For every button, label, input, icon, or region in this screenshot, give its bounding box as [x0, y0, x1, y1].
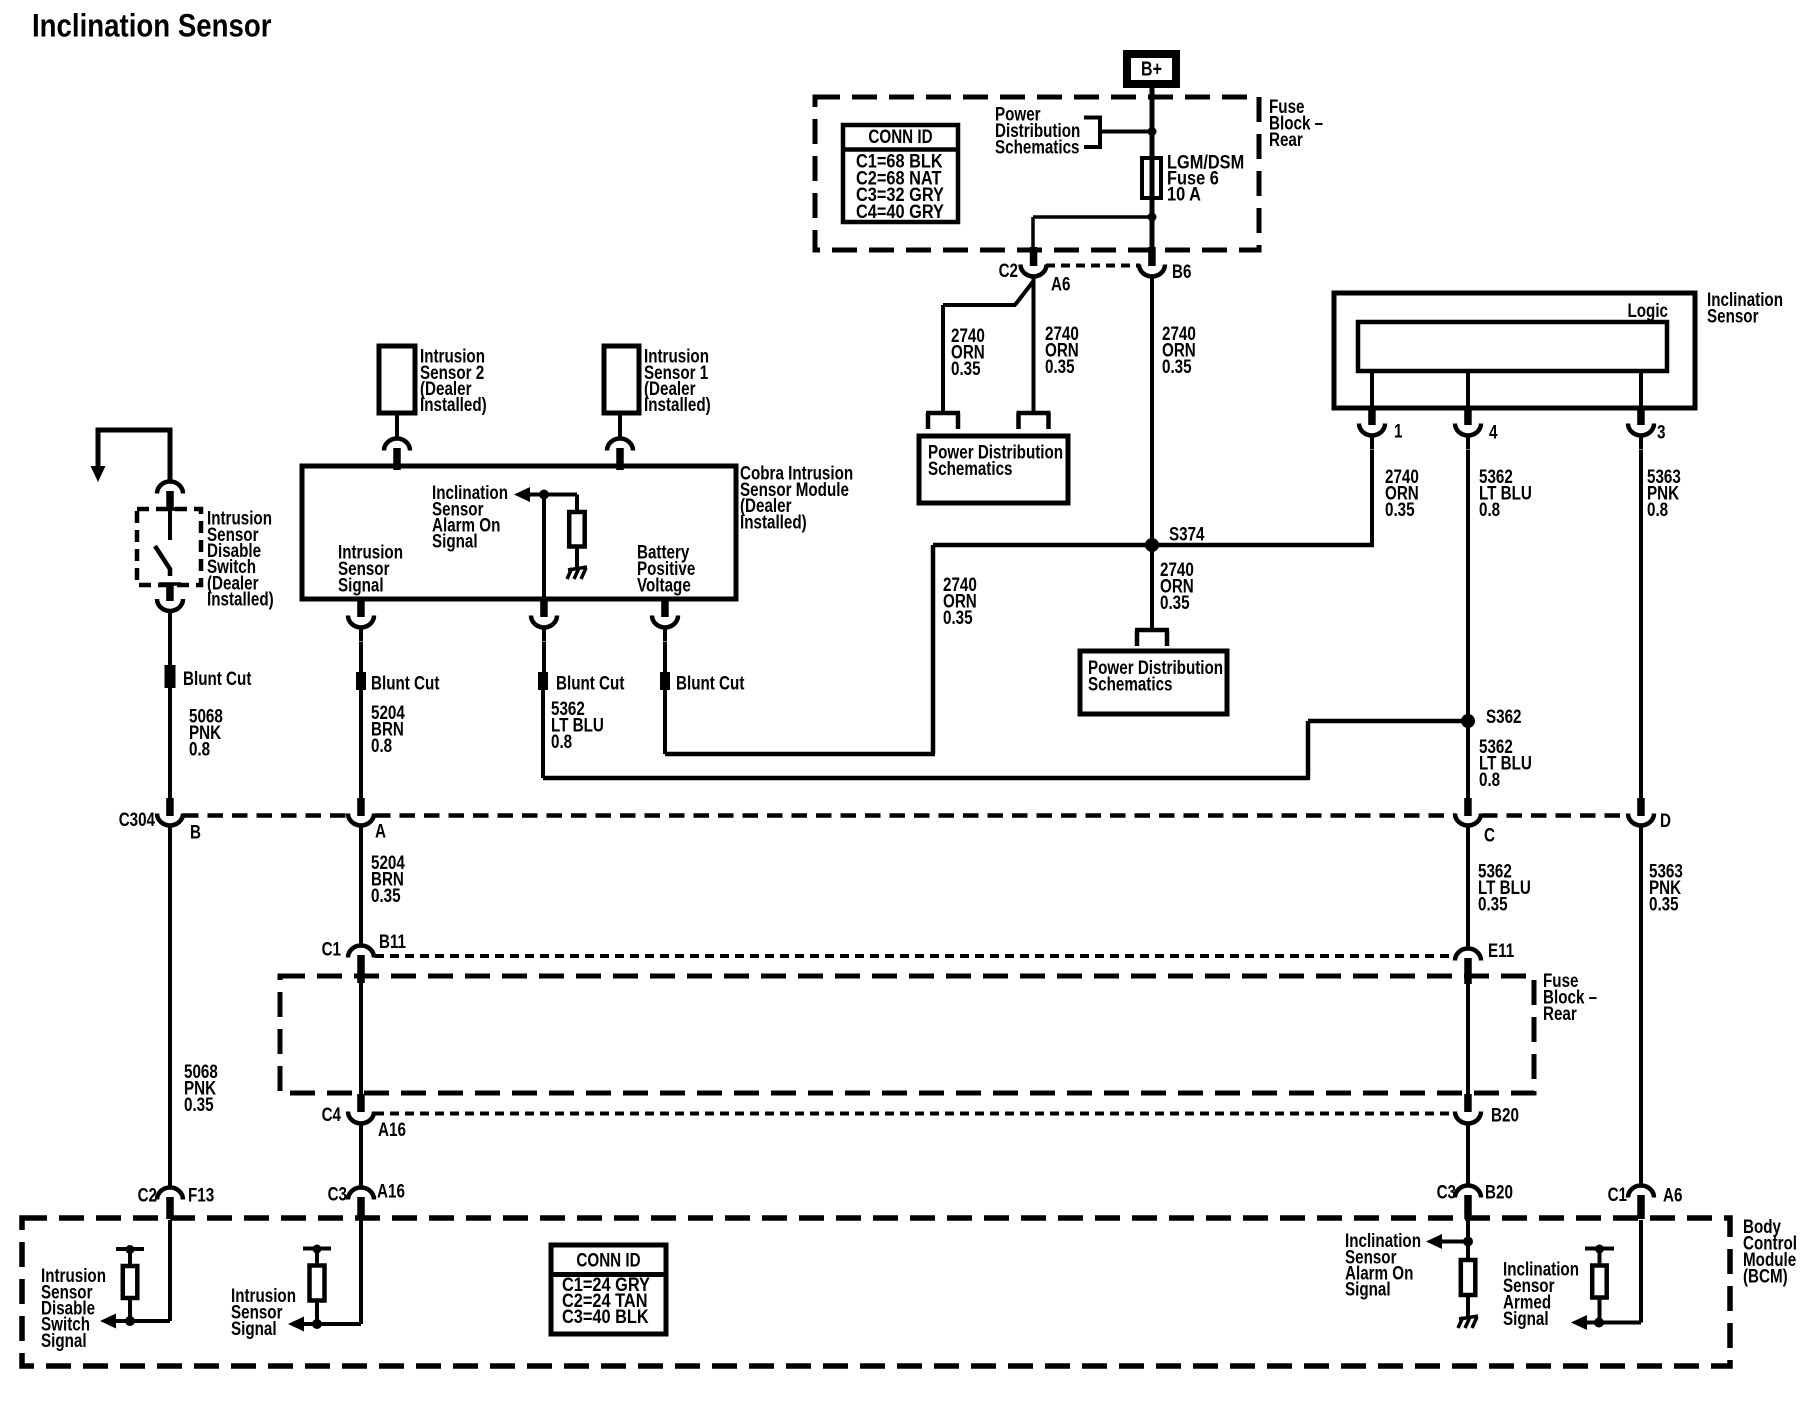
arrow intrusion sensor signal	[288, 1317, 304, 1332]
svg-text:Signal: Signal	[231, 1319, 277, 1340]
pin 1	[1368, 408, 1376, 425]
connector module alarm	[531, 616, 557, 628]
svg-text:0.35: 0.35	[1649, 894, 1679, 915]
svg-text:0.35: 0.35	[184, 1095, 214, 1116]
svg-text:0.35: 0.35	[943, 608, 973, 629]
blunt cut 2	[356, 672, 366, 690]
wire resistor to ground (BCM)	[1466, 1295, 1470, 1316]
ground (BCM)	[1459, 1316, 1478, 1319]
connector pin 4	[1455, 424, 1481, 436]
connector sensor 1	[607, 439, 633, 451]
wire S374 to battery blunt cut	[665, 752, 935, 757]
wire sensor 2 to module	[395, 413, 399, 437]
wire module battery to blunt cut	[663, 642, 667, 672]
svg-text:A16: A16	[377, 1182, 405, 1203]
svg-text:Installed): Installed)	[420, 395, 487, 416]
connector module battery	[652, 616, 678, 628]
svg-text:Inclination Sensor: Inclination Sensor	[32, 8, 272, 44]
wire 5204 BRN 0.35 down	[359, 839, 363, 945]
svg-text:Signal: Signal	[1503, 1309, 1549, 1330]
arrow inclination armed	[1571, 1315, 1587, 1330]
wire logic to pin 3	[1639, 371, 1643, 408]
svg-text:Rear: Rear	[1543, 1004, 1577, 1025]
svg-text:0.35: 0.35	[371, 886, 401, 907]
junction below fuse	[1148, 213, 1157, 222]
svg-text:C3: C3	[1437, 1183, 1456, 1204]
wire S374 horizontal	[933, 543, 1374, 548]
arrow inclination alarm on	[1426, 1234, 1442, 1249]
connector C304-C pin	[1464, 798, 1472, 816]
wire 2740 ORN from A6	[1032, 279, 1036, 412]
connector pin 3	[1628, 424, 1654, 436]
connector B20 pin	[1464, 1094, 1472, 1112]
intrusion sensor disable switch dashed box	[137, 509, 201, 585]
svg-text:Logic: Logic	[1628, 301, 1669, 322]
junction on B+ feed	[1148, 127, 1157, 136]
switch bottom pin	[166, 585, 174, 601]
intrusion sensor 2 box	[379, 346, 415, 413]
wire to alarm on arrow	[1440, 1240, 1468, 1244]
pull-up resistor (intrusion signal)	[303, 1247, 331, 1251]
svg-text:A6: A6	[1663, 1186, 1682, 1207]
svg-text:C: C	[1484, 826, 1495, 847]
wire 5204 to C304	[359, 690, 363, 798]
connector C1/B11	[348, 946, 374, 958]
module pin (alarm)	[540, 599, 548, 617]
svg-text:0.35: 0.35	[1478, 894, 1508, 915]
wire S374 down to power dist	[1150, 545, 1154, 628]
pin 4	[1464, 408, 1472, 425]
splice S374	[1145, 538, 1159, 552]
wire down to C2 pin	[1031, 217, 1035, 247]
svg-text:C2: C2	[138, 1186, 157, 1207]
svg-text:0.35: 0.35	[1162, 357, 1192, 378]
svg-text:B6: B6	[1172, 262, 1191, 283]
wire horizontal to left branch	[943, 303, 1016, 307]
wire to intrusion sensor signal arrow	[302, 1322, 361, 1326]
resistor (alarm on)	[1461, 1260, 1476, 1295]
svg-text:S362: S362	[1486, 707, 1522, 728]
connector B20	[1455, 1112, 1481, 1124]
svg-text:C304: C304	[119, 810, 156, 831]
svg-text:B20: B20	[1485, 1183, 1513, 1204]
connector pin 1	[1359, 424, 1385, 436]
wire B20 to C3	[1466, 1137, 1470, 1185]
wire logic to pin 4	[1466, 371, 1470, 408]
svg-text:C4=40 GRY: C4=40 GRY	[856, 202, 944, 223]
wire pin 4 down to C	[1466, 450, 1470, 798]
connector module signal	[348, 616, 374, 628]
svg-text:Voltage: Voltage	[637, 575, 691, 596]
wire F13 into BCM	[168, 1220, 172, 1321]
svg-text:Installed): Installed)	[207, 590, 274, 611]
off-page connector bracket (lower)	[1135, 628, 1169, 633]
cobra intrusion sensor module box	[302, 466, 736, 599]
arrowhead down	[91, 466, 106, 482]
svg-text:C2: C2	[999, 261, 1018, 282]
fuse F6 LGM/DSM 10A	[1142, 158, 1161, 198]
inclination sensor box	[1334, 293, 1695, 408]
svg-text:F13: F13	[188, 1186, 214, 1207]
connector B6	[1139, 265, 1165, 277]
switch fixed contact	[168, 509, 172, 540]
svg-text:E11: E11	[1488, 941, 1515, 962]
connector C4/A16 pin	[357, 1094, 365, 1112]
svg-text:Schematics: Schematics	[928, 459, 1013, 480]
connector C2/A6	[1021, 265, 1047, 277]
wire 2740 ORN B6 to S374	[1150, 279, 1154, 545]
wire A16 to C3	[359, 1137, 363, 1187]
connector E11	[1455, 949, 1481, 961]
wire logic to pin 1	[1370, 371, 1374, 408]
wire 5068 PNK 0.35 down	[168, 839, 172, 1187]
svg-text:Signal: Signal	[41, 1331, 87, 1352]
wire through fuse block (right)	[1466, 983, 1470, 1094]
svg-text:3: 3	[1657, 423, 1666, 444]
connector C304 dashed line	[183, 813, 347, 818]
CONN ID table (BCM)	[551, 1245, 666, 1334]
svg-text:C4: C4	[322, 1105, 342, 1126]
svg-text:C3: C3	[328, 1185, 347, 1206]
arrow alarm on signal	[514, 487, 530, 502]
svg-text:Signal: Signal	[432, 532, 478, 553]
svg-text:Blunt Cut: Blunt Cut	[676, 674, 745, 695]
svg-text:Schematics: Schematics	[995, 137, 1080, 158]
ground (module internal)	[568, 567, 587, 570]
svg-text:A6: A6	[1051, 275, 1070, 296]
svg-text:0.8: 0.8	[189, 739, 210, 760]
connector C304-A	[348, 814, 374, 826]
wire 5362 LT BLU 0.35 down	[1466, 838, 1470, 948]
wire sensor 1 to module	[618, 413, 622, 437]
svg-text:CONN ID: CONN ID	[576, 1251, 640, 1272]
wire to internal resistor	[575, 495, 579, 514]
connector C3/B20 (BCM)	[1455, 1186, 1481, 1198]
connector below disable switch	[157, 599, 183, 611]
connector interface dotted line B11-E11	[375, 954, 1455, 958]
svg-text:4: 4	[1489, 423, 1498, 444]
wire alarm on internal	[528, 493, 577, 497]
wire to disable switch signal arrow	[113, 1319, 170, 1323]
svg-text:Rear: Rear	[1269, 130, 1303, 151]
wire switch to blunt cut	[168, 625, 172, 665]
inclination sensor logic block	[1358, 322, 1667, 371]
svg-text:C1: C1	[1608, 1185, 1628, 1206]
svg-text:0.8: 0.8	[371, 736, 392, 757]
wire 2740 blunt cut to S374 run	[663, 690, 667, 754]
blunt cut 4	[660, 672, 670, 690]
connector B6 pin	[1148, 247, 1156, 266]
svg-text:0.35: 0.35	[951, 359, 981, 380]
svg-text:0.8: 0.8	[1647, 500, 1668, 521]
module pin (battery)	[661, 599, 669, 617]
junction intrusion sensor signal	[312, 1319, 322, 1329]
svg-text:Sensor: Sensor	[1707, 307, 1759, 328]
svg-text:B11: B11	[379, 932, 406, 953]
blunt cut 1	[165, 665, 176, 688]
svg-text:S374: S374	[1169, 525, 1205, 546]
svg-text:C3=40 BLK: C3=40 BLK	[562, 1307, 649, 1328]
CONN ID table (fuse block)	[843, 125, 958, 222]
switch blade	[155, 546, 170, 576]
svg-text:Blunt Cut: Blunt Cut	[556, 674, 625, 695]
wire pin 1 to S374 line	[1370, 450, 1374, 547]
connector C1/A6 (BCM)	[1628, 1186, 1654, 1198]
switch bottom contact bar	[159, 582, 181, 586]
wire module alarm to blunt cut	[542, 642, 546, 672]
svg-text:Signal: Signal	[1345, 1280, 1391, 1301]
off-page connector bracket (right)	[1017, 411, 1051, 416]
connector C2/F13	[157, 1188, 183, 1200]
svg-text:A16: A16	[378, 1120, 406, 1141]
connector C304-C	[1455, 814, 1481, 826]
svg-text:CONN ID: CONN ID	[868, 127, 932, 148]
svg-text:D: D	[1660, 811, 1671, 832]
svg-text:0.35: 0.35	[1045, 357, 1075, 378]
wire S374 left leg down	[931, 545, 936, 754]
bracket to power distribution note	[1084, 118, 1100, 148]
wire through fuse block (left)	[359, 983, 363, 1094]
connector C304-D pin	[1637, 798, 1645, 816]
connector sensor 2	[384, 439, 410, 451]
wire 5362 blunt cut to S362 run	[541, 690, 545, 778]
junction alarm on (BCM)	[1463, 1237, 1473, 1247]
resistor internal (module)	[569, 512, 585, 547]
svg-text:Installed): Installed)	[740, 513, 807, 534]
connector C304-A pin	[357, 798, 365, 816]
module pin (signal)	[357, 599, 365, 617]
wire A6 into BCM	[1639, 1220, 1643, 1323]
arrow disable switch signal	[100, 1314, 116, 1329]
intrusion sensor 1 box	[604, 346, 639, 413]
svg-text:0.8: 0.8	[1479, 500, 1500, 521]
connector above disable switch	[157, 482, 183, 494]
svg-text:Installed): Installed)	[644, 395, 711, 416]
fuse block rear (lower) dashed box	[280, 976, 1534, 1093]
wire A16 into BCM	[359, 1220, 363, 1324]
wire B+ feed down	[1150, 88, 1155, 247]
junction disable switch signal	[125, 1316, 135, 1326]
power distribution schematics box (lower)	[1080, 651, 1227, 714]
wire pin 3 down to D	[1639, 450, 1643, 798]
svg-text:A: A	[375, 822, 386, 843]
connector interface dotted line A16-B20	[375, 1112, 1454, 1116]
svg-text:10 A: 10 A	[1167, 185, 1201, 206]
svg-text:1: 1	[1394, 422, 1403, 443]
svg-text:Blunt Cut: Blunt Cut	[183, 669, 252, 690]
splice S362	[1461, 714, 1475, 728]
wire diagonal from A6	[1015, 281, 1034, 305]
wire S362 to alarm blunt cut	[543, 776, 1310, 781]
power distribution schematics box (upper)	[919, 436, 1068, 503]
svg-text:0.8: 0.8	[551, 732, 572, 753]
connector C3/A16 (BCM)	[348, 1188, 374, 1200]
battery B+ terminal	[1127, 54, 1176, 84]
switch top contact bar	[159, 507, 181, 511]
svg-text:0.8: 0.8	[1479, 770, 1500, 791]
wire module signal to blunt cut	[359, 642, 363, 672]
svg-text:(BCM): (BCM)	[1743, 1266, 1788, 1287]
wire to armed signal arrow	[1584, 1321, 1641, 1325]
wire 5363 PNK 0.35 down	[1639, 838, 1643, 1185]
svg-text:Schematics: Schematics	[1088, 674, 1173, 695]
svg-text:0.35: 0.35	[1385, 500, 1415, 521]
wire left branch down	[941, 305, 945, 412]
connector C304-B pin	[166, 798, 174, 816]
svg-text:B: B	[190, 823, 201, 844]
connector C2 pin	[1030, 247, 1038, 266]
junction armed signal	[1594, 1318, 1604, 1328]
body control module dashed box	[22, 1218, 1730, 1366]
svg-text:Signal: Signal	[338, 575, 384, 596]
svg-text:Blunt Cut: Blunt Cut	[371, 674, 440, 695]
wire S362 riser	[1306, 721, 1311, 778]
junction alarm on	[539, 490, 549, 500]
off-page connector bracket (left)	[926, 411, 960, 416]
svg-text:0.35: 0.35	[1160, 593, 1190, 614]
wire S362 horizontal	[1308, 719, 1468, 724]
pull-up resistor (armed signal)	[1585, 1247, 1614, 1251]
connector C4/A16	[348, 1112, 374, 1124]
wire arrow stub (to disable switch signal)	[98, 430, 170, 480]
svg-text:B20: B20	[1491, 1106, 1519, 1127]
wire B20 into BCM	[1466, 1220, 1470, 1260]
pull-up resistor (disable switch)	[116, 1247, 144, 1251]
connector interface dotted line C2-B6	[1046, 264, 1140, 268]
svg-text:C1: C1	[322, 940, 342, 961]
connector C304-B	[157, 814, 183, 826]
wire 5068 to C304	[168, 688, 172, 798]
svg-text:B+: B+	[1141, 58, 1162, 80]
wire alarm on to pin	[542, 495, 546, 600]
pin 3	[1637, 408, 1645, 425]
blunt cut 3	[538, 672, 548, 690]
connector C304-D	[1628, 814, 1654, 826]
fuse block rear (top) dashed box	[815, 97, 1259, 250]
wire resistor to ground	[575, 547, 579, 568]
wire branch to C2	[1033, 215, 1152, 219]
